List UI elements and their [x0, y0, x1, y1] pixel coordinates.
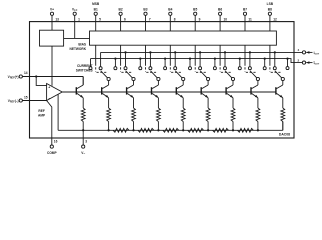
svg-text:B5: B5 — [193, 8, 197, 12]
svg-text:9: 9 — [199, 17, 201, 21]
svg-text:–: – — [48, 96, 50, 100]
svg-text:11: 11 — [248, 17, 252, 21]
svg-text:AMP: AMP — [38, 114, 46, 118]
svg-text:+: + — [48, 85, 50, 89]
svg-text:SWITCHES: SWITCHES — [76, 68, 93, 72]
svg-text:B3: B3 — [143, 8, 147, 12]
svg-text:B4: B4 — [168, 8, 172, 12]
svg-text:1: 1 — [78, 17, 80, 21]
svg-text:V–: V– — [81, 151, 85, 155]
svg-text:B6: B6 — [218, 8, 222, 12]
svg-text:BIAS: BIAS — [78, 42, 86, 46]
svg-text:10: 10 — [224, 17, 228, 21]
svg-text:7: 7 — [149, 17, 151, 21]
svg-text:14: 14 — [24, 71, 28, 75]
svg-text:NETWORK: NETWORK — [70, 47, 87, 51]
svg-text:LSB: LSB — [267, 2, 274, 6]
svg-text:5: 5 — [99, 17, 101, 21]
svg-text:B8: B8 — [268, 8, 272, 12]
svg-text:B2: B2 — [119, 8, 123, 12]
svg-text:6: 6 — [124, 17, 126, 21]
svg-text:V+: V+ — [50, 8, 54, 12]
svg-text:3: 3 — [85, 140, 87, 144]
svg-text:REF: REF — [38, 109, 44, 113]
svg-text:12: 12 — [273, 17, 277, 21]
svg-text:13: 13 — [55, 17, 59, 21]
svg-text:B7: B7 — [243, 8, 247, 12]
svg-text:B1: B1 — [94, 8, 98, 12]
svg-text:COMP: COMP — [47, 151, 57, 155]
svg-text:CURRENT: CURRENT — [77, 64, 93, 68]
svg-text:16: 16 — [54, 140, 58, 144]
svg-text:8: 8 — [174, 17, 176, 21]
svg-text:DAC08: DAC08 — [279, 133, 290, 137]
svg-text:MSB: MSB — [92, 2, 100, 6]
svg-text:15: 15 — [24, 95, 28, 99]
